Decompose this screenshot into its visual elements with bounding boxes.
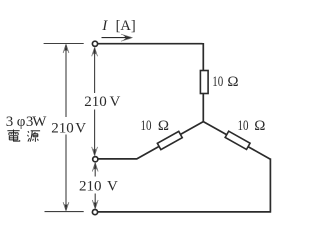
arrowhead up (dim 2) (92, 163, 98, 172)
arrowhead up (left dim) (63, 44, 69, 53)
svg-text:3φ3W: 3φ3W (6, 114, 48, 130)
wire top (98, 43, 204, 72)
arrowhead down (dim 1) (92, 147, 98, 156)
arrowhead up (dim 1) (92, 47, 98, 56)
terminal a (top) (92, 41, 97, 46)
wire right diagonal (203, 122, 270, 160)
svg-text:210V: 210V (84, 94, 120, 110)
dimension line 2 (lower 210 V) (94, 163, 96, 208)
resistor R1 (vertical 10 ohm) (200, 71, 208, 94)
extension tick top (44, 43, 84, 45)
resistor R3 (right diagonal 10 ohm) (225, 131, 250, 149)
svg-text:I: I (101, 18, 108, 34)
dimension line left (overall 210 V) (65, 45, 67, 211)
svg-text:210V: 210V (51, 120, 86, 136)
current arrow (102, 34, 134, 41)
arrowhead down (dim 2) (92, 200, 98, 209)
label I [A] (101, 18, 135, 34)
extension tick bottom (45, 211, 84, 213)
terminal c (bottom) (92, 210, 97, 215)
kanji GEN (source) drawn as strokes (28, 131, 41, 142)
resistor R2 (left diagonal 10 ohm) (157, 131, 182, 149)
wire from resistor R1 to node (202, 93, 204, 123)
svg-text:210V: 210V (79, 179, 118, 195)
svg-text:[A]: [A] (116, 18, 136, 34)
wire left diagonal + horizontal to terminal b (98, 122, 203, 159)
terminal b (middle) (93, 157, 98, 162)
dimension line 1 (top 210 V) (94, 48, 96, 155)
wire right vertical and bottom (98, 158, 272, 212)
arrowhead down (left dim) (63, 202, 69, 211)
kanji DEN (electricity) drawn as strokes (7, 130, 19, 142)
